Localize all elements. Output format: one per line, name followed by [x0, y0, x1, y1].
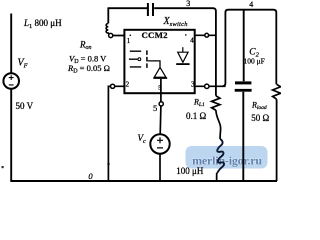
capacitor C2: [235, 81, 252, 91]
svg-text:1: 1: [127, 37, 131, 45]
svg-text:Ron: Ron: [79, 40, 92, 52]
resistor R_L1 zigzag: [212, 96, 220, 110]
svg-text:0: 0: [88, 171, 93, 181]
diode inside box: [176, 47, 189, 65]
op-amp box CCM2: [124, 30, 194, 93]
pin 4 terminal: [205, 33, 209, 37]
svg-text:5: 5: [158, 86, 161, 92]
svg-text:100 μF: 100 μF: [244, 56, 265, 65]
pin 3 terminal: [205, 84, 209, 88]
pin 5 terminal: [159, 102, 163, 106]
svg-text:3: 3: [186, 0, 190, 8]
speck left edge: [2, 166, 4, 168]
wire top node 4: [222, 10, 276, 87]
svg-text:Vc: Vc: [138, 133, 147, 145]
svg-text:50 Ω: 50 Ω: [251, 113, 269, 123]
wire pin5 to Vc: [159, 106, 162, 134]
svg-text:Rload: Rload: [251, 101, 267, 112]
svg-text:50 V: 50 V: [16, 101, 34, 111]
mosfet dashes inside box: [129, 50, 147, 69]
svg-text:100 μH: 100 μH: [176, 166, 204, 176]
wire bottom ground rail: [10, 180, 277, 182]
pin 5 stem: [160, 79, 162, 102]
watermark merlin-igor.ru: [186, 146, 268, 169]
svg-text:VF: VF: [18, 58, 29, 70]
svg-text:RL1: RL1: [193, 98, 205, 109]
svg-text:4: 4: [249, 0, 253, 9]
voltage source VF: [3, 73, 19, 89]
svg-text:0.1 Ω: 0.1 Ω: [186, 111, 207, 121]
svg-text:4: 4: [190, 36, 194, 44]
pin 2 terminal: [111, 84, 115, 88]
pin 3 wire: [195, 85, 226, 87]
inductor L1 (vertical wire with bumps): [106, 7, 108, 34]
pin 1 terminal: [109, 33, 113, 37]
capacitor X_switch plates: [147, 3, 154, 16]
speck dots: [130, 35, 132, 37]
triangle buffer inside box: [148, 61, 168, 79]
junction blob: [107, 163, 109, 165]
pin 4 wire: [195, 34, 216, 36]
wire Vc to ground: [159, 154, 161, 181]
svg-text:5: 5: [153, 103, 157, 113]
svg-text:L1 800 μH: L1 800 μH: [23, 18, 62, 30]
wire coil to ground: [216, 173, 218, 181]
wire zigzag to coil: [216, 110, 221, 139]
svg-text:2: 2: [126, 81, 130, 89]
wire top node 1-3: [108, 8, 216, 96]
voltage source Vc: [150, 134, 169, 153]
wire R_load to ground: [276, 99, 278, 181]
svg-text:CCM2: CCM2: [142, 30, 169, 40]
wire left rail bottom: [10, 89, 12, 182]
inductor L2 coil: [217, 139, 224, 173]
pin 2 wire: [108, 86, 124, 181]
svg-text:3: 3: [191, 80, 195, 88]
pin 1 wire: [108, 35, 124, 37]
wire C2 branch bottom: [242, 92, 244, 181]
wire C2 branch top: [243, 10, 245, 82]
resistor R_load zigzag: [273, 84, 281, 99]
svg-text:Xswitch: Xswitch: [163, 16, 188, 28]
wire left rail top (Vf to top): [10, 14, 12, 74]
